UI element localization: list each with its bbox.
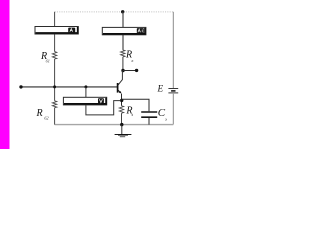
svg-text:э: э: [131, 112, 133, 117]
svg-text:э: э: [165, 116, 167, 121]
svg-text:E: E: [157, 84, 164, 94]
svg-text:б1: б1: [46, 59, 50, 64]
svg-text:б2: б2: [44, 116, 49, 121]
svg-text:к: к: [132, 58, 134, 63]
svg-text:R: R: [36, 108, 43, 119]
